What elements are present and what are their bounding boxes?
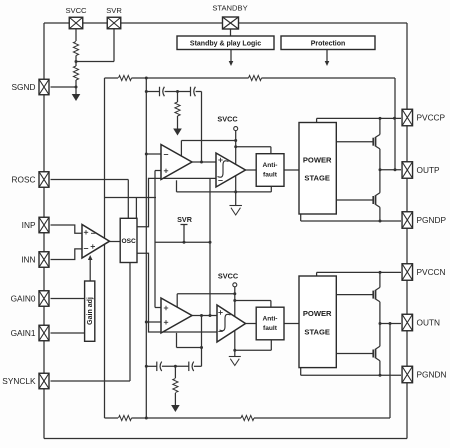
svg-text:OUTN: OUTN [417, 318, 441, 328]
svg-text:SGND: SGND [12, 82, 36, 92]
svg-text:INN: INN [21, 255, 35, 265]
svg-text:SVR: SVR [177, 215, 193, 224]
svg-text:fault: fault [263, 172, 278, 179]
svg-text:PGNDP: PGNDP [417, 215, 447, 225]
svg-text:OUTP: OUTP [417, 165, 441, 175]
svg-text:GAIN1: GAIN1 [11, 328, 36, 338]
svg-text:SVCC: SVCC [218, 272, 239, 281]
svg-text:SVCC: SVCC [65, 6, 87, 15]
svg-text:PGNDN: PGNDN [417, 370, 447, 380]
svg-text:STAGE: STAGE [304, 327, 330, 336]
svg-text:Anti-: Anti- [262, 162, 277, 169]
svg-text:SVCC: SVCC [217, 115, 238, 124]
svg-text:SYNCLK: SYNCLK [2, 376, 36, 386]
svg-text:Gain adj: Gain adj [87, 297, 94, 325]
svg-text:Protection: Protection [311, 41, 346, 48]
svg-text:PVCCN: PVCCN [417, 267, 446, 277]
svg-text:OSC: OSC [121, 238, 136, 245]
svg-text:STANDBY: STANDBY [212, 4, 247, 13]
svg-text:INP: INP [22, 220, 36, 230]
svg-text:GAIN0: GAIN0 [11, 294, 36, 304]
svg-text:Standby & play Logic: Standby & play Logic [190, 41, 261, 48]
svg-text:fault: fault [263, 325, 278, 332]
svg-text:PVCCP: PVCCP [417, 113, 446, 123]
svg-text:ROSC: ROSC [12, 175, 36, 185]
svg-text:STAGE: STAGE [304, 173, 330, 182]
svg-text:SVR: SVR [106, 6, 122, 15]
svg-text:POWER: POWER [303, 309, 332, 318]
svg-text:Anti-: Anti- [262, 316, 277, 323]
svg-text:POWER: POWER [303, 155, 332, 164]
